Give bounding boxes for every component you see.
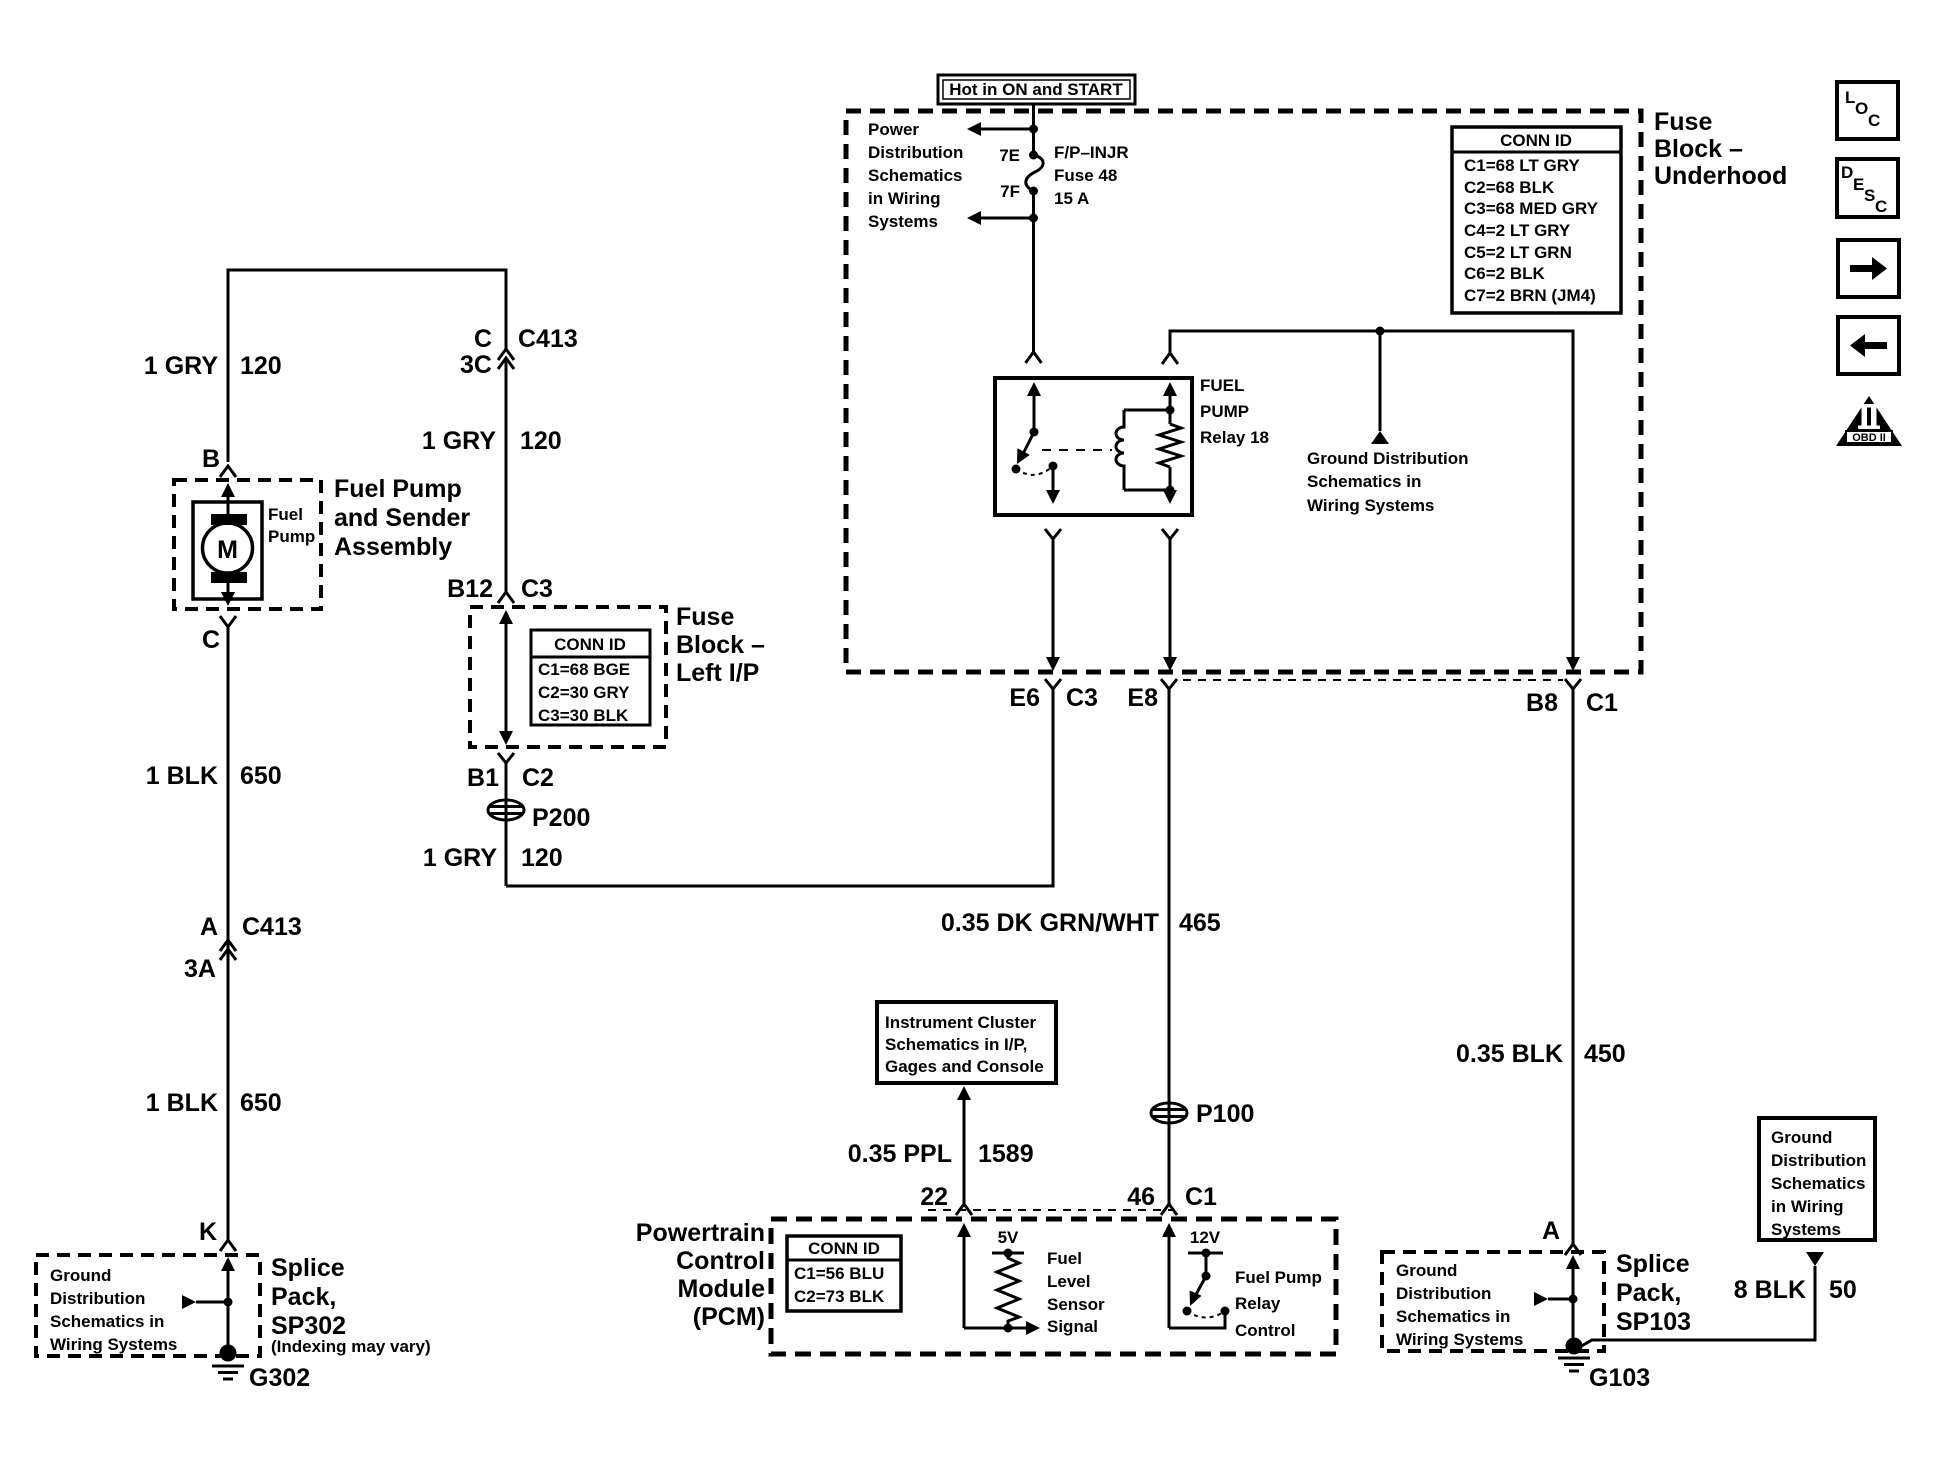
- svg-text:Control: Control: [1235, 1321, 1295, 1340]
- svg-text:Signal: Signal: [1047, 1317, 1098, 1336]
- svg-text:C3: C3: [1066, 684, 1098, 712]
- svg-text:B8: B8: [1526, 689, 1558, 717]
- svg-text:Gages and Console: Gages and Console: [885, 1057, 1044, 1076]
- svg-text:B: B: [202, 445, 220, 473]
- svg-text:1 GRY: 1 GRY: [422, 427, 496, 455]
- svg-text:650: 650: [240, 762, 282, 790]
- svg-text:450: 450: [1584, 1040, 1626, 1068]
- svg-text:D: D: [1841, 163, 1853, 182]
- svg-text:F/P–INJR: F/P–INJR: [1054, 143, 1129, 162]
- svg-text:A: A: [200, 913, 218, 941]
- svg-text:M: M: [217, 536, 238, 564]
- svg-text:C4=2 LT GRY: C4=2 LT GRY: [1464, 221, 1571, 240]
- svg-text:Underhood: Underhood: [1654, 162, 1787, 190]
- svg-text:Hot in ON and START: Hot in ON and START: [949, 80, 1123, 99]
- svg-text:Ground: Ground: [1396, 1261, 1457, 1280]
- svg-text:Relay 18: Relay 18: [1200, 428, 1269, 447]
- svg-text:SP302: SP302: [271, 1312, 346, 1340]
- svg-text:Distribution: Distribution: [1396, 1284, 1491, 1303]
- svg-text:46: 46: [1127, 1183, 1155, 1211]
- svg-text:C: C: [474, 325, 492, 353]
- svg-text:B12: B12: [447, 575, 493, 603]
- svg-text:C2=68 BLK: C2=68 BLK: [1464, 178, 1555, 197]
- svg-text:C1=56 BLU: C1=56 BLU: [794, 1264, 884, 1283]
- svg-text:Systems: Systems: [868, 212, 938, 231]
- svg-text:C413: C413: [518, 325, 578, 353]
- svg-text:K: K: [199, 1218, 217, 1246]
- svg-text:E6: E6: [1009, 684, 1040, 712]
- svg-text:E8: E8: [1127, 684, 1158, 712]
- svg-text:Schematics in: Schematics in: [1396, 1307, 1510, 1326]
- svg-text:50: 50: [1829, 1276, 1857, 1304]
- svg-text:Fuse: Fuse: [1654, 108, 1712, 136]
- svg-text:Fuse: Fuse: [676, 603, 734, 631]
- svg-text:FUEL: FUEL: [1200, 376, 1244, 395]
- svg-text:G103: G103: [1589, 1364, 1650, 1392]
- svg-text:7E: 7E: [999, 146, 1020, 165]
- svg-text:Control: Control: [676, 1247, 765, 1275]
- svg-text:5V: 5V: [998, 1228, 1019, 1247]
- svg-text:Wiring Systems: Wiring Systems: [1307, 496, 1434, 515]
- svg-text:Fuel: Fuel: [1047, 1249, 1082, 1268]
- svg-text:3A: 3A: [184, 955, 216, 983]
- svg-text:C1: C1: [1586, 689, 1618, 717]
- svg-text:Distribution: Distribution: [868, 143, 963, 162]
- svg-text:and Sender: and Sender: [334, 504, 470, 532]
- svg-text:Distribution: Distribution: [50, 1289, 145, 1308]
- svg-text:OBD II: OBD II: [1852, 432, 1886, 444]
- svg-text:1 GRY: 1 GRY: [423, 844, 497, 872]
- svg-text:Fuel Pump: Fuel Pump: [1235, 1268, 1322, 1287]
- svg-text:Pack,: Pack,: [1616, 1279, 1681, 1307]
- svg-text:P100: P100: [1196, 1100, 1254, 1128]
- svg-text:3C: 3C: [460, 351, 492, 379]
- svg-text:O: O: [1855, 99, 1868, 118]
- svg-text:22: 22: [920, 1183, 948, 1211]
- svg-text:P200: P200: [532, 804, 590, 832]
- svg-text:Ground: Ground: [1771, 1128, 1832, 1147]
- svg-text:Fuse 48: Fuse 48: [1054, 166, 1117, 185]
- svg-text:Wiring Systems: Wiring Systems: [1396, 1330, 1523, 1349]
- svg-text:Distribution: Distribution: [1771, 1151, 1866, 1170]
- svg-text:PUMP: PUMP: [1200, 402, 1249, 421]
- svg-text:1 BLK: 1 BLK: [146, 1089, 218, 1117]
- svg-text:Schematics: Schematics: [1771, 1174, 1866, 1193]
- svg-text:Power: Power: [868, 120, 919, 139]
- svg-text:Fuel: Fuel: [268, 505, 303, 524]
- svg-text:Schematics: Schematics: [868, 166, 963, 185]
- svg-text:0.35 BLK: 0.35 BLK: [1456, 1040, 1563, 1068]
- svg-text:C413: C413: [242, 913, 302, 941]
- svg-text:S: S: [1864, 186, 1875, 205]
- svg-text:C1: C1: [1185, 1183, 1217, 1211]
- svg-text:0.35 PPL: 0.35 PPL: [848, 1140, 952, 1168]
- svg-text:Instrument Cluster: Instrument Cluster: [885, 1013, 1037, 1032]
- svg-text:12V: 12V: [1190, 1228, 1221, 1247]
- svg-text:Block –: Block –: [1654, 135, 1743, 163]
- svg-text:C: C: [1868, 111, 1880, 130]
- svg-text:C: C: [1875, 197, 1887, 216]
- svg-text:Module: Module: [678, 1275, 766, 1303]
- svg-text:in Wiring: in Wiring: [1771, 1197, 1844, 1216]
- svg-text:Fuel Pump: Fuel Pump: [334, 475, 462, 503]
- svg-text:C2=30 GRY: C2=30 GRY: [538, 683, 630, 702]
- svg-text:(PCM): (PCM): [693, 1303, 765, 1331]
- svg-text:Ground Distribution: Ground Distribution: [1307, 449, 1468, 468]
- svg-text:Systems: Systems: [1771, 1220, 1841, 1239]
- svg-text:1 BLK: 1 BLK: [146, 762, 218, 790]
- svg-text:1589: 1589: [978, 1140, 1034, 1168]
- svg-text:C2=73 BLK: C2=73 BLK: [794, 1287, 885, 1306]
- svg-text:Relay: Relay: [1235, 1294, 1281, 1313]
- svg-text:in Wiring: in Wiring: [868, 189, 941, 208]
- svg-text:C1=68 BGE: C1=68 BGE: [538, 660, 630, 679]
- svg-text:CONN ID: CONN ID: [554, 635, 626, 654]
- svg-text:7F: 7F: [1000, 182, 1020, 201]
- svg-text:Assembly: Assembly: [334, 533, 452, 561]
- svg-text:C: C: [202, 626, 220, 654]
- svg-text:Pump: Pump: [268, 527, 315, 546]
- svg-text:(Indexing may vary): (Indexing may vary): [271, 1337, 431, 1356]
- svg-text:E: E: [1853, 175, 1864, 194]
- svg-text:Wiring Systems: Wiring Systems: [50, 1335, 177, 1354]
- svg-text:Pack,: Pack,: [271, 1283, 336, 1311]
- svg-text:120: 120: [240, 352, 282, 380]
- svg-text:CONN ID: CONN ID: [808, 1239, 880, 1258]
- svg-text:Powertrain: Powertrain: [636, 1219, 765, 1247]
- svg-text:Block –: Block –: [676, 631, 765, 659]
- svg-text:Sensor: Sensor: [1047, 1295, 1105, 1314]
- svg-text:15 A: 15 A: [1054, 189, 1089, 208]
- svg-text:Ground: Ground: [50, 1266, 111, 1285]
- svg-text:Left I/P: Left I/P: [676, 659, 759, 687]
- svg-text:C6=2 BLK: C6=2 BLK: [1464, 264, 1545, 283]
- svg-text:C1=68 LT GRY: C1=68 LT GRY: [1464, 156, 1580, 175]
- svg-text:C5=2 LT GRN: C5=2 LT GRN: [1464, 243, 1572, 262]
- svg-text:120: 120: [520, 427, 562, 455]
- svg-text:465: 465: [1179, 909, 1221, 937]
- svg-text:C3=68 MED GRY: C3=68 MED GRY: [1464, 199, 1599, 218]
- svg-text:C3: C3: [521, 575, 553, 603]
- svg-text:650: 650: [240, 1089, 282, 1117]
- svg-text:Schematics in I/P,: Schematics in I/P,: [885, 1035, 1027, 1054]
- svg-text:A: A: [1542, 1217, 1560, 1245]
- svg-text:Schematics in: Schematics in: [50, 1312, 164, 1331]
- svg-text:Level: Level: [1047, 1272, 1090, 1291]
- svg-text:Splice: Splice: [271, 1254, 345, 1282]
- svg-text:L: L: [1845, 88, 1855, 107]
- svg-text:B1: B1: [467, 764, 499, 792]
- svg-text:Schematics in: Schematics in: [1307, 472, 1421, 491]
- svg-text:8 BLK: 8 BLK: [1734, 1276, 1806, 1304]
- svg-text:CONN ID: CONN ID: [1500, 131, 1572, 150]
- svg-text:SP103: SP103: [1616, 1308, 1691, 1336]
- svg-text:C7=2 BRN (JM4): C7=2 BRN (JM4): [1464, 286, 1596, 305]
- svg-text:1 GRY: 1 GRY: [144, 352, 218, 380]
- svg-text:120: 120: [521, 844, 563, 872]
- svg-text:C3=30 BLK: C3=30 BLK: [538, 706, 629, 725]
- svg-text:G302: G302: [249, 1364, 310, 1392]
- svg-text:Splice: Splice: [1616, 1250, 1690, 1278]
- svg-text:C2: C2: [522, 764, 554, 792]
- svg-text:0.35 DK GRN/WHT: 0.35 DK GRN/WHT: [941, 909, 1159, 937]
